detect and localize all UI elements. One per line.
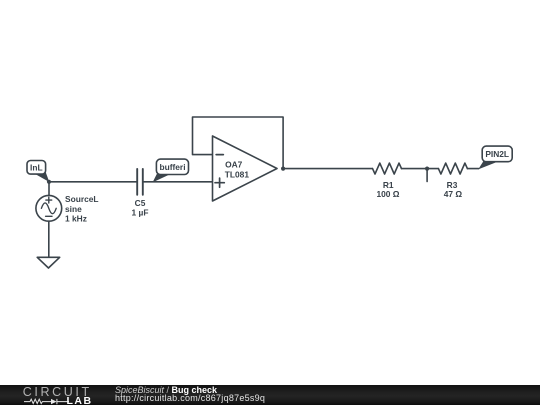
node InL junction <box>47 180 51 184</box>
wire source to ground <box>48 221 50 257</box>
node op-amp output <box>281 167 285 171</box>
resistor R3 <box>438 163 467 174</box>
ground <box>37 257 60 268</box>
footer url line <box>115 394 265 404</box>
flag PIN2L tail <box>478 161 497 170</box>
flag InL <box>27 161 46 175</box>
source SourceL circle <box>36 195 62 221</box>
svg-text:InL: InL <box>30 163 43 173</box>
flag InL tail <box>35 173 50 182</box>
source minus sign <box>46 215 52 217</box>
svg-text:TL081: TL081 <box>225 170 250 180</box>
op-amp minus input symbol <box>216 154 223 156</box>
svg-text:47 Ω: 47 Ω <box>444 189 463 199</box>
flag bufferi <box>156 159 188 174</box>
logo squiggle resistor diode <box>24 398 72 405</box>
wire R1 to node <box>402 168 439 170</box>
footer bar <box>0 385 540 405</box>
logo CIRCUIT <box>23 386 92 399</box>
op-amp plus input symbol <box>215 178 224 187</box>
capacitor C5 plates <box>137 169 143 195</box>
wire R3 to flag <box>467 168 478 170</box>
node junction with stub <box>425 167 429 171</box>
footer title line <box>115 386 217 396</box>
wire stub down <box>426 169 428 182</box>
wire output to R1 <box>283 168 372 170</box>
svg-text:100 Ω: 100 Ω <box>376 189 399 199</box>
logo LAB <box>67 396 93 405</box>
wire node to source <box>48 182 50 196</box>
wire main input horizontal <box>49 181 137 183</box>
svg-text:SourceL: SourceL <box>65 194 99 204</box>
wire capacitor to op-amp <box>143 181 213 183</box>
op-amp OA7 triangle <box>213 136 278 201</box>
svg-text:1 µF: 1 µF <box>132 208 149 218</box>
svg-text:bufferi: bufferi <box>159 162 185 172</box>
resistor R1 <box>373 163 402 174</box>
wire feedback loop <box>193 117 284 169</box>
svg-text:OA7: OA7 <box>225 160 243 170</box>
flag PIN2L <box>482 146 512 162</box>
flag bufferi tail <box>153 174 169 183</box>
svg-text:sine: sine <box>65 204 82 214</box>
svg-text:1 kHz: 1 kHz <box>65 213 87 223</box>
svg-text:C5: C5 <box>135 198 146 208</box>
source plus sign <box>46 197 52 203</box>
source sine wave <box>41 203 56 214</box>
svg-text:PIN2L: PIN2L <box>485 149 509 159</box>
